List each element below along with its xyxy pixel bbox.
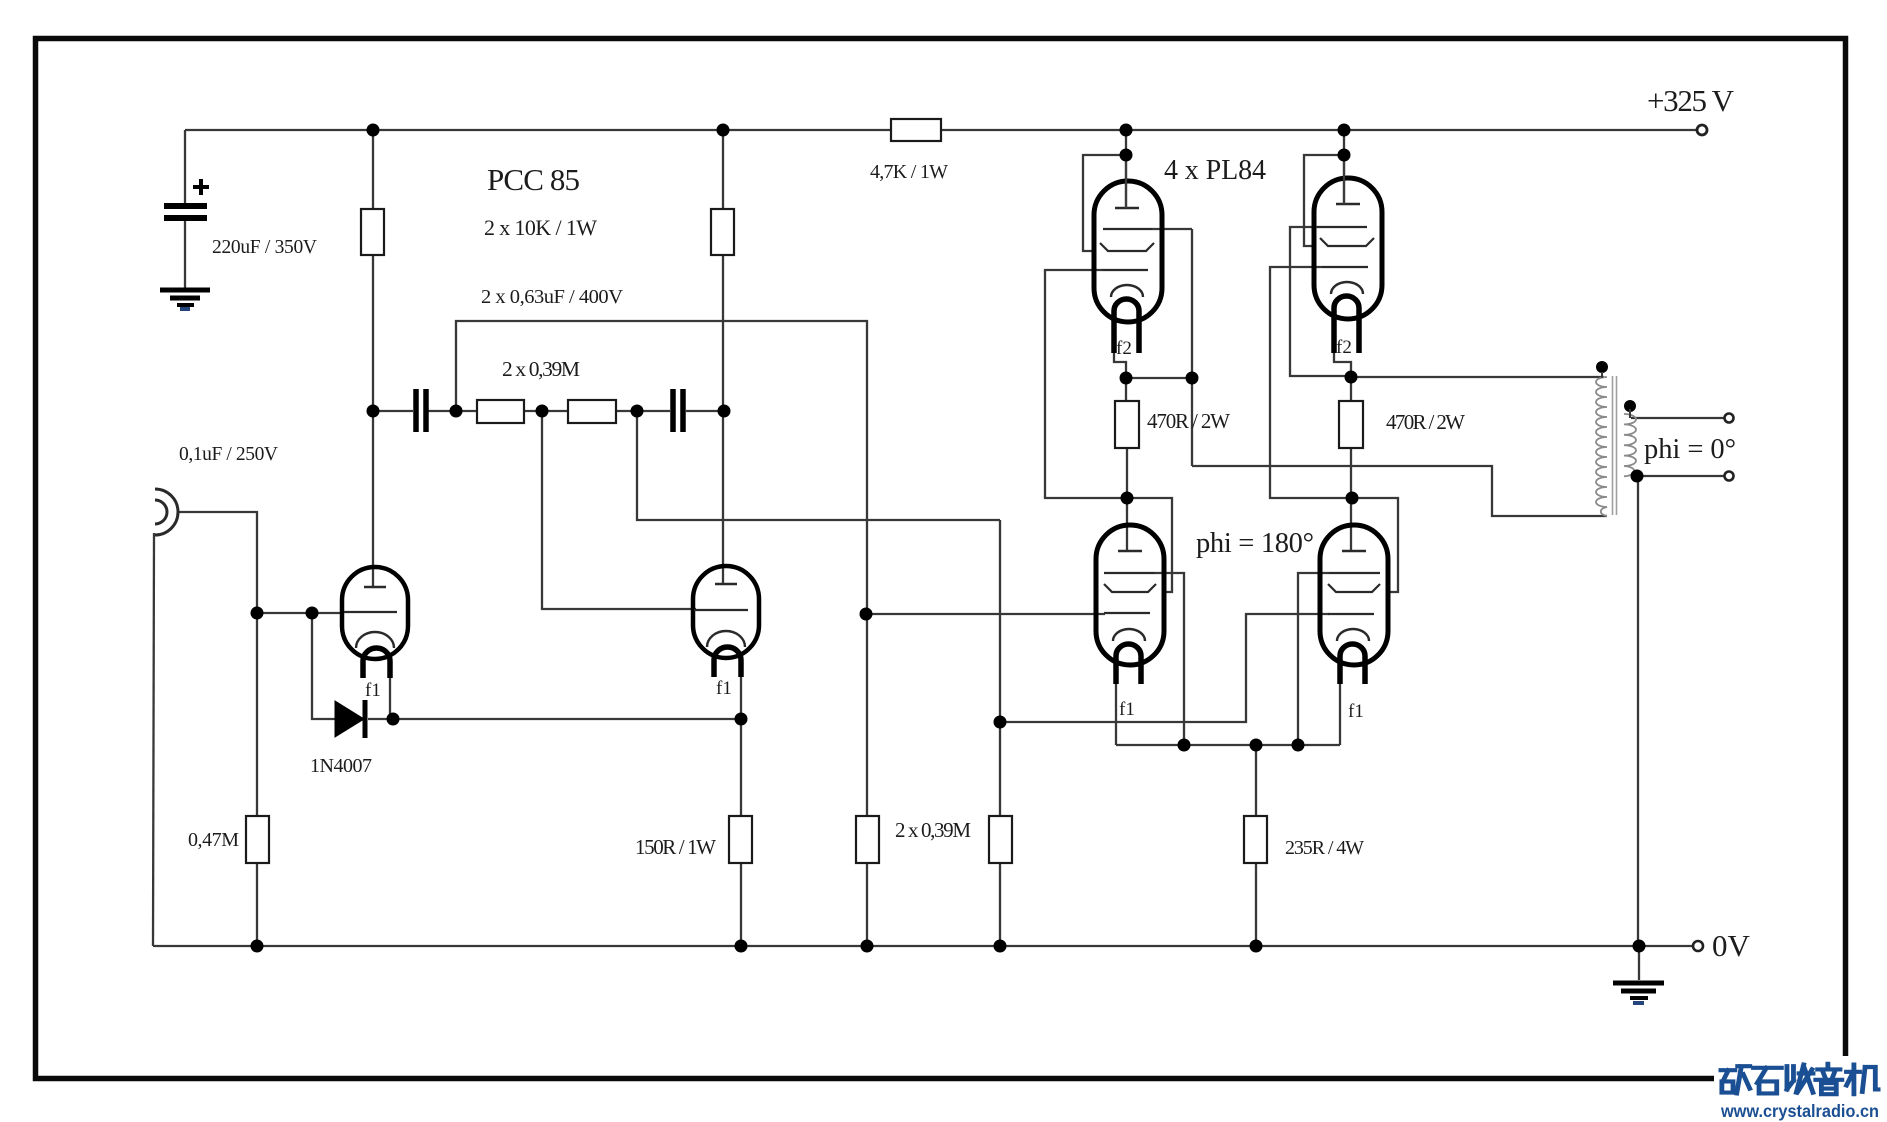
transformer primary winding: [1596, 377, 1607, 516]
wire top rail +325V: [185, 129, 1697, 131]
node U1 anode/screen: [1120, 149, 1133, 162]
node secondary bottom junction: [1631, 470, 1644, 483]
wire U3 heater leg: [1115, 684, 1117, 745]
wire PL84 U1 cathode row: [1126, 377, 1192, 379]
wire 470R#1 leads: [1126, 378, 1127, 552]
wire U2 cathode row to transformer primary top: [1351, 376, 1604, 378]
node U3 grid feed: [860, 608, 873, 621]
svg-text:2 x 0,39M: 2 x 0,39M: [895, 818, 971, 842]
wire 220uF cap top lead: [184, 130, 186, 203]
wire PL84 U2 g1 stub down to U4 anode node: [1270, 267, 1347, 498]
node U4 grid row: [994, 716, 1007, 729]
node rail 150R: [735, 940, 748, 953]
node diode column: [306, 607, 319, 620]
wire feedback loop 0.63uF path: [456, 321, 867, 816]
wire PL84 U1 screen bracket: [1083, 155, 1126, 251]
svg-text:f1: f1: [1348, 701, 1364, 722]
resistor 0,39M top#1: [477, 400, 524, 423]
diode 1N4007: [335, 700, 365, 738]
wire R10K#1 branch: [372, 130, 374, 588]
capacitor C 220uF/350V plates: [164, 206, 207, 218]
wire secondary bottom to ground rail: [1637, 476, 1639, 946]
wire f1 row lower tubes: [1116, 744, 1340, 746]
wire PL84 U1 anode feed: [1125, 130, 1127, 209]
svg-text:phi = 0°: phi = 0°: [1644, 434, 1736, 465]
node C1-R junction: [450, 405, 463, 418]
node U3 anode: [1121, 492, 1134, 505]
resistor 10K#1: [361, 209, 384, 255]
wire triode1 heater leg down: [389, 678, 391, 717]
svg-text:2 x 0,39M: 2 x 0,39M: [502, 357, 580, 381]
wire U3 screen bracket: [1127, 498, 1172, 592]
ground symbol left: [160, 290, 210, 305]
svg-text:www.crystalradio.cn: www.crystalradio.cn: [1720, 1101, 1879, 1121]
wire 235R leads: [1255, 745, 1257, 946]
resistor 470R/2W #2: [1339, 401, 1363, 448]
svg-text:4 x PL84: 4 x PL84: [1164, 155, 1266, 186]
wire 220uF cap bottom lead: [184, 220, 186, 288]
pentode U2 PL84 envelope: [1314, 155, 1382, 353]
resistor 0,39M bottom#2: [989, 816, 1012, 863]
svg-text:235R / 4W: 235R / 4W: [1285, 837, 1364, 859]
wire triode2 heater leg down: [740, 676, 742, 816]
wire U4 g2 stub down to f1 row: [1298, 573, 1329, 745]
wire PL84 U2 screen bracket: [1304, 155, 1344, 246]
wire diode anode column: [312, 613, 335, 719]
node U2 cathode: [1345, 371, 1358, 384]
triode V1a PCC85 envelope: [342, 567, 408, 678]
node coupling left: [367, 405, 380, 418]
svg-text:470R / 2W: 470R / 2W: [1147, 409, 1230, 433]
terminal +325V: [1697, 125, 1707, 135]
capacitor coupling C1 plates: [416, 389, 426, 432]
svg-text:0V: 0V: [1712, 928, 1751, 963]
node U2 anode/screen: [1338, 149, 1351, 162]
svg-text:f1: f1: [365, 680, 381, 701]
wire input shield column: [153, 533, 154, 946]
resistor 4,7K/1W: [891, 119, 941, 141]
wire input jack to grid: [177, 512, 257, 816]
svg-text:f2: f2: [1336, 337, 1352, 358]
ground blue tick right: [1633, 1001, 1644, 1005]
pentode U3 PL84 envelope: [1096, 525, 1164, 684]
wire PL84 U2 anode feed: [1343, 130, 1345, 205]
transformer secondary winding: [1624, 414, 1636, 476]
wire 470R#2 leads: [1350, 377, 1352, 552]
wire PL84 U2 cathode jog: [1334, 353, 1351, 373]
wire 0.47M lead to rail: [256, 863, 258, 946]
node rail R10K#1: [367, 124, 380, 137]
wire PL84 U1 g2 stub to beam node: [1152, 228, 1192, 230]
capacitor coupling C2 plates: [673, 389, 683, 432]
svg-text:0,47M: 0,47M: [188, 829, 239, 851]
ground blue tick left: [180, 307, 190, 311]
node C2 right: [718, 405, 731, 418]
svg-text:150R / 1W: 150R / 1W: [635, 835, 716, 859]
wire U4 grid link row: [1000, 614, 1329, 722]
wire U4 screen bracket: [1352, 498, 1398, 592]
resistor 10K#2: [711, 209, 734, 255]
svg-text:f2: f2: [1116, 338, 1132, 359]
wire transformer primary bottom return: [1192, 466, 1607, 516]
wire node R-R junction down to triode2 grid: [542, 411, 696, 609]
wire secondary bottom out: [1637, 475, 1724, 477]
svg-text:+325 V: +325 V: [1647, 83, 1735, 118]
node f1 row a: [1178, 739, 1191, 752]
svg-text:1N4007: 1N4007: [310, 755, 372, 777]
wire bottom 0V rail: [153, 945, 1693, 947]
resistor 0,39M top#2: [568, 400, 616, 423]
resistor 150R/1W: [729, 816, 752, 863]
wire 0.39M bottom#1 lead to rail: [866, 863, 868, 946]
node U1 cathode: [1120, 372, 1133, 385]
node input grid: [251, 607, 264, 620]
svg-text:PCC 85: PCC 85: [487, 162, 580, 197]
node rail 235R: [1250, 940, 1263, 953]
terminal output top: [1725, 414, 1734, 423]
node rail 0.39Mb: [994, 940, 1007, 953]
transformer primary dot mark: [1596, 361, 1608, 373]
resistor 0,47M: [246, 816, 269, 863]
node R-C2 junction: [631, 405, 644, 418]
wire triode1 grid row: [257, 612, 344, 614]
resistor 470R/2W #1: [1115, 401, 1139, 448]
wire U3 g2 stub down to f1 row: [1155, 573, 1184, 745]
svg-text:4,7K / 1W: 4,7K / 1W: [870, 161, 948, 183]
svg-text:2 x 10K / 1W: 2 x 10K / 1W: [484, 215, 597, 240]
wire R10K#2 branch: [722, 130, 724, 585]
triode V1b PCC85 envelope: [693, 566, 759, 677]
node rail 0.47M: [251, 940, 264, 953]
node R-R junction: [536, 405, 549, 418]
node U1 beam return: [1186, 372, 1199, 385]
input connector jack: [155, 489, 178, 535]
wire PL84 U2 g2 stub down to cathode node: [1290, 227, 1347, 376]
transformer winding dot stubs: [1602, 372, 1630, 418]
svg-text:phi = 180°: phi = 180°: [1196, 528, 1314, 559]
svg-text:f1: f1: [716, 678, 732, 699]
node rail U2: [1338, 124, 1351, 137]
watermark logo glyphs: [1721, 1064, 1878, 1094]
svg-text:2 x 0,63uF / 400V: 2 x 0,63uF / 400V: [481, 286, 623, 308]
wire PL84 U1 cathode jog: [1114, 353, 1126, 373]
wire PL84 U1 g1 stub down to U3 anode node: [1045, 270, 1121, 498]
node f1 row b: [1250, 739, 1263, 752]
terminal output bottom: [1725, 472, 1734, 481]
svg-text:f1: f1: [1119, 699, 1135, 720]
pentode U4 PL84 envelope: [1320, 525, 1388, 684]
transformer core: [1613, 376, 1617, 515]
ground symbol right: [1613, 983, 1664, 998]
node diode cathode f1: [387, 713, 400, 726]
transformer secondary dot mark: [1624, 400, 1636, 412]
node rail U1: [1120, 124, 1133, 137]
node U4 anode: [1346, 492, 1359, 505]
wire diode cathode to f1 junction: [368, 718, 741, 720]
svg-text:220uF / 350V: 220uF / 350V: [212, 237, 317, 258]
node rail R10K#2: [717, 124, 730, 137]
resistor 0,39M bottom#1: [856, 816, 879, 863]
wire U3 g1 feed row: [866, 613, 1105, 615]
node f1 row c: [1292, 739, 1305, 752]
wire beam node column to primary bottom row: [1191, 229, 1193, 466]
pentode U1 PL84 envelope: [1094, 155, 1162, 353]
wire 150R lead to rail: [740, 863, 742, 946]
node V1b heater 150R: [735, 713, 748, 726]
wire U4 heater leg: [1339, 684, 1341, 745]
watermark backing: [1714, 1056, 1887, 1122]
wire 0.39M bottom#2 column: [999, 520, 1001, 946]
wire node to PL84 U4 grid column: [637, 411, 1000, 520]
node rail 0.39Ma: [861, 940, 874, 953]
terminal 0V: [1693, 941, 1703, 951]
node rail ground: [1633, 940, 1646, 953]
wire ground stem right: [1638, 946, 1640, 980]
svg-text:0,1uF / 250V: 0,1uF / 250V: [179, 444, 278, 465]
wire secondary top out: [1631, 417, 1724, 419]
wire coupling row segments: [373, 410, 724, 412]
resistor 235R/4W: [1244, 816, 1267, 863]
svg-text:470R / 2W: 470R / 2W: [1386, 410, 1465, 434]
plus sign 220uF polarity: [193, 179, 209, 195]
